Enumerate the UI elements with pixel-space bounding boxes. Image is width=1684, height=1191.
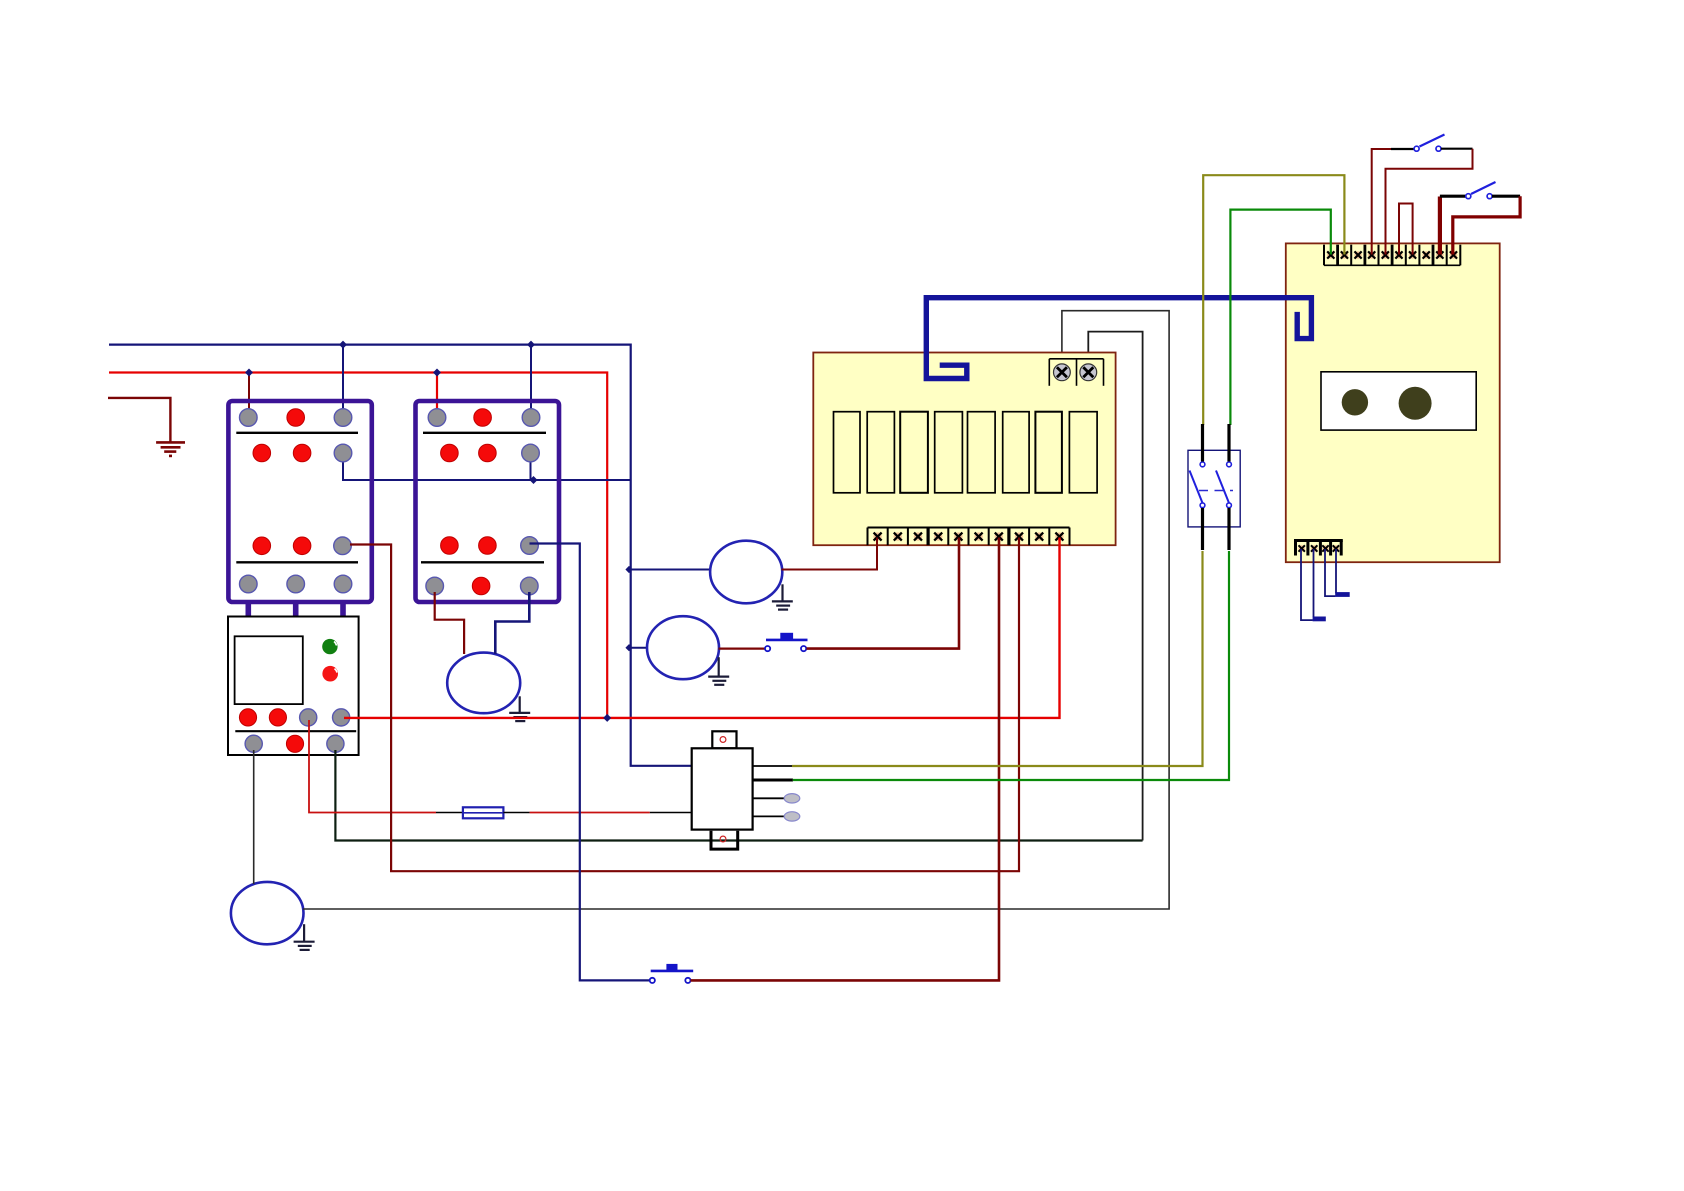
relay module A2 bottom tab xyxy=(711,831,738,849)
junction diamonds on feeders xyxy=(245,341,535,377)
overload relay F1 separator line xyxy=(235,730,356,732)
contactor K1 output stubs purple xyxy=(248,601,343,617)
wire L3 feeder maroon to ground xyxy=(108,398,170,442)
contactor K1 separator line top xyxy=(236,432,358,434)
relay module A2 spade connector 1 xyxy=(784,794,800,803)
wire gray M4 output to X1 terminal circle 1 xyxy=(303,311,1169,909)
wire olive A2 to switch S3 xyxy=(792,551,1203,766)
A1 bottom-left terminal comb xyxy=(1294,541,1343,556)
A1 indicator circle 2 xyxy=(1399,387,1432,420)
A1 top terminal strip comb xyxy=(1324,245,1460,266)
S3 mechanical link dashed xyxy=(1199,490,1233,492)
wire navy branch to motor M1 xyxy=(631,569,711,571)
S4 return to cell5 xyxy=(1441,148,1473,150)
relay module A2 body xyxy=(692,748,753,829)
ground PE1 maroon xyxy=(156,442,185,456)
toggle switch S5 feed from cell9 thick xyxy=(1438,197,1442,255)
wire maroon K1 row3 to cell8 xyxy=(350,545,1019,872)
junction dot red xyxy=(603,714,611,722)
wire navy K2 out-right to M3 xyxy=(495,592,529,654)
S3 blades xyxy=(1190,471,1203,504)
overload relay F1 red LED xyxy=(322,666,338,682)
relay slot 3 xyxy=(900,412,928,493)
bus bar termination B xyxy=(1335,592,1350,597)
wire green A2 to switch S3 xyxy=(793,551,1229,780)
wire navy K2 aux drop xyxy=(530,453,532,480)
motor M1 circle xyxy=(710,541,782,604)
wire drop maroon to K1 pin1 xyxy=(248,373,250,419)
motor M2 circle xyxy=(647,616,719,679)
S4 blade xyxy=(1420,135,1445,147)
relay module A2 spade connector 2 xyxy=(784,812,800,821)
A1 indicator panel xyxy=(1321,372,1476,430)
wire drop navy to K1 pin3 xyxy=(342,345,344,418)
wire red main control F1 to cell10 xyxy=(344,545,1060,718)
wire green to A1 cell1 xyxy=(1230,210,1330,425)
overload relay F1 green LED xyxy=(322,639,337,654)
contactor K2 pins row4 xyxy=(426,577,538,595)
relay slot 8 xyxy=(1069,412,1097,493)
wire black fuse left xyxy=(436,812,463,814)
wire maroon M1 to terminal cell1 xyxy=(782,545,878,570)
bus bar termination A xyxy=(1313,617,1326,622)
wire L2 phase feeder red xyxy=(109,373,607,718)
S3 contacts xyxy=(1200,462,1231,508)
X1 bottom terminal strip comb xyxy=(868,528,1070,546)
contactor K1 pins row1 xyxy=(240,409,352,427)
S3 black lead-ins xyxy=(1203,424,1230,550)
ground M3 xyxy=(509,696,530,721)
wire navy A1 bottom t3 xyxy=(1325,549,1335,596)
A1 top terminal X marks xyxy=(1327,251,1457,259)
ground M4 xyxy=(294,924,315,950)
relay module A2 top tab xyxy=(712,731,736,748)
changeover switch S3 box xyxy=(1188,450,1240,527)
pushbutton S2 xyxy=(650,964,694,983)
relay slot 6 xyxy=(1003,412,1029,493)
wire darkgreen F1 pin to X1 terminal circle 2 xyxy=(335,750,1142,841)
relay slot 7 xyxy=(1035,412,1062,493)
X1 bottom terminal X marks xyxy=(873,532,1063,540)
wire navy A1 bottom t2 xyxy=(1313,549,1315,617)
jumper cells 6-7 xyxy=(1399,204,1413,255)
overload relay F1 body xyxy=(228,617,359,756)
wire black fuse right then red to relay A2 xyxy=(503,812,529,814)
wire navy K2 row3 to pushbutton S2 xyxy=(530,544,653,981)
pushbutton S1 xyxy=(765,633,808,651)
junction arrow motor2 branch xyxy=(625,644,632,651)
wire olive to A1 cell2 xyxy=(1203,175,1344,425)
contactor K2 separator line top xyxy=(423,432,546,434)
S5 return to cell10 xyxy=(1492,195,1520,198)
wire maroon K2 out-left to M3 xyxy=(435,592,464,654)
X1 screw terminal 2 xyxy=(1080,364,1097,381)
S5 blade xyxy=(1471,182,1496,194)
wire navy A1 bottom t1 xyxy=(1301,549,1313,620)
toggle switch S4 loop from cell4 xyxy=(1372,149,1391,255)
A1 indicator circle 1 xyxy=(1342,389,1368,415)
wire red F1 pin3 to fuse line xyxy=(309,720,436,813)
wire drop red to K2 pin1 xyxy=(436,373,438,419)
overload relay F1 display window xyxy=(235,636,303,704)
terminal block X1 body xyxy=(813,353,1115,546)
thick navy bus wire with hooks xyxy=(926,298,1311,379)
wire L1 phase feeder navy xyxy=(109,345,692,766)
overload relay F1 pins row1 xyxy=(239,709,349,726)
relay slot 1 xyxy=(834,412,861,493)
contactor K2 pins row2 xyxy=(441,444,540,462)
contactor K2 separator line bottom xyxy=(421,561,544,563)
relay slot 5 xyxy=(968,412,996,493)
contactor K1 pins row3 xyxy=(253,537,351,555)
X1 screw terminal 1 xyxy=(1054,364,1071,381)
hour meter M4 circle xyxy=(231,882,304,944)
overload relay F1 pins row2 xyxy=(245,735,344,752)
contactor K2 body xyxy=(416,401,560,602)
fuse FU1 xyxy=(463,807,504,818)
junction diamond aux xyxy=(530,476,538,484)
relay slot 2 xyxy=(867,412,894,493)
contactor K1 pins row4 xyxy=(240,575,352,593)
contactor K1 body xyxy=(228,401,371,602)
ground M2 xyxy=(708,657,729,685)
wire navy branch to motor M2 xyxy=(631,647,648,649)
motor M3 circle xyxy=(447,653,520,714)
wire drop navy to K2 pin3 xyxy=(530,345,532,418)
contactor K1 separator line bottom xyxy=(236,561,358,563)
wire maroon S2 to cell7 xyxy=(691,545,1000,980)
wire maroon M2 to pushbutton S1 xyxy=(719,647,767,649)
wire navy K1 aux to vertical bus xyxy=(343,453,631,480)
control unit A1 body xyxy=(1286,243,1500,562)
wire gray F1 to M4 xyxy=(253,750,255,884)
wire maroon S1 to terminal cell5 xyxy=(807,545,960,649)
wire stubs through bottom cells xyxy=(877,538,1060,547)
contactor K2 pins row1 xyxy=(428,409,540,427)
relay slot 4 xyxy=(935,412,963,493)
relay module A2 right pin wires xyxy=(753,765,792,767)
A1 bottom terminal X marks xyxy=(1298,545,1339,552)
junction arrow motor1 branch xyxy=(625,566,632,573)
wire navy A1 bottom t4 xyxy=(1335,549,1337,593)
contactor K2 pins row3 xyxy=(441,537,539,555)
X1 top terminal bracket xyxy=(1049,359,1103,386)
contactor K1 pins row2 xyxy=(253,444,352,462)
ground M1 xyxy=(772,584,793,609)
